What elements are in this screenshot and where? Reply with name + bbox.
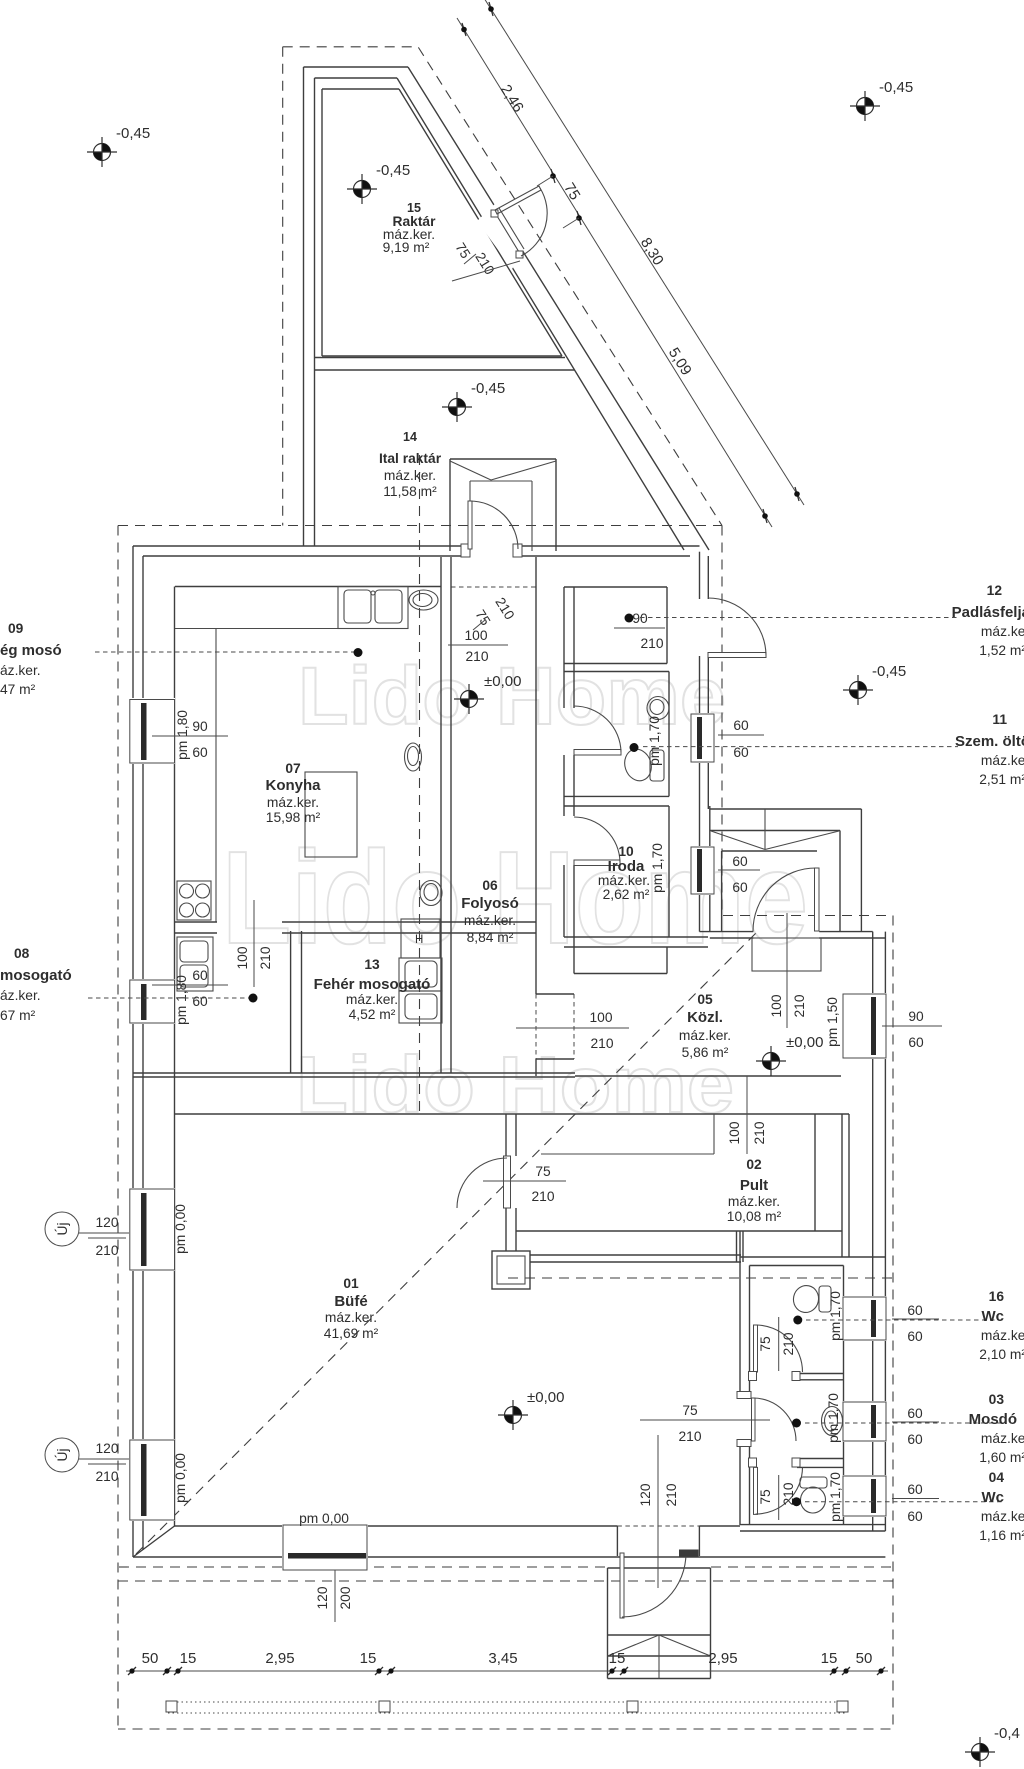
corridor opening jambs dashed bbox=[535, 994, 537, 1059]
outer wall left middle line bbox=[142, 556, 144, 1550]
svg-text:01: 01 bbox=[343, 1276, 359, 1291]
svg-text:2,95: 2,95 bbox=[708, 1650, 737, 1667]
dashed overhang line below bottom wall bbox=[118, 1580, 893, 1582]
svg-text:mosogató: mosogató bbox=[0, 967, 72, 984]
svg-text:100: 100 bbox=[769, 994, 784, 1017]
svg-text:Konyha: Konyha bbox=[265, 777, 321, 794]
wing diagonal wall outer bbox=[408, 67, 709, 550]
svg-text:pm 1,70: pm 1,70 bbox=[647, 716, 662, 766]
door wc16 jamb marks bbox=[749, 1372, 757, 1381]
svg-text:10: 10 bbox=[618, 844, 634, 859]
svg-text:pm 1,70: pm 1,70 bbox=[828, 1472, 843, 1522]
door wc04 arc bbox=[756, 1467, 803, 1514]
uj circle 2 bbox=[45, 1438, 79, 1472]
svg-text:pm 1,70: pm 1,70 bbox=[828, 1291, 843, 1341]
pult right wall bbox=[841, 1114, 843, 1257]
svg-text:±0,00: ±0,00 bbox=[527, 1389, 564, 1406]
svg-text:pm 1,50: pm 1,50 bbox=[825, 997, 840, 1047]
svg-text:60: 60 bbox=[192, 994, 208, 1009]
svg-text:75: 75 bbox=[472, 607, 493, 628]
svg-text:75: 75 bbox=[758, 1489, 773, 1505]
wc block top wall bbox=[740, 1256, 885, 1258]
rooms block top inner face bbox=[564, 586, 667, 588]
svg-text:máz.ker.: máz.ker. bbox=[267, 795, 319, 810]
svg-text:60: 60 bbox=[192, 745, 208, 760]
svg-text:máz.ker.: máz.ker. bbox=[384, 468, 436, 483]
dashed boundary right bbox=[118, 526, 893, 1730]
marker -0,45 wing bbox=[347, 174, 377, 204]
room 15 top face bbox=[322, 88, 399, 90]
window left 2 room08 bbox=[129, 979, 175, 1024]
kitchen block bottom wall bbox=[133, 1072, 575, 1074]
kozl entry step bbox=[752, 938, 821, 971]
room 15 bottom face bbox=[322, 355, 562, 357]
svg-text:15: 15 bbox=[407, 201, 421, 215]
svg-text:100: 100 bbox=[464, 628, 487, 643]
kitchen oval hand sink bbox=[409, 590, 438, 610]
svg-text:14: 14 bbox=[403, 430, 417, 444]
wc16 door dim bbox=[778, 1317, 780, 1371]
porch canopy triangle bbox=[711, 831, 765, 850]
svg-text:máz.ker: máz.ker bbox=[981, 1328, 1024, 1343]
kitchen left counter edge bbox=[215, 629, 217, 923]
kozl nook wall bbox=[574, 973, 667, 975]
wall kitchen to room 13 bbox=[282, 921, 536, 923]
svg-text:Fehér mosogató: Fehér mosogató bbox=[314, 976, 431, 993]
room 13 left wall bbox=[290, 931, 292, 1073]
svg-text:-0,45: -0,45 bbox=[471, 380, 505, 397]
window left 4 bufe bbox=[129, 1439, 175, 1521]
svg-text:16: 16 bbox=[989, 1289, 1005, 1304]
svg-text:2,62 m²: 2,62 m² bbox=[603, 887, 650, 902]
right wall upper outer face bbox=[699, 552, 701, 599]
svg-text:210: 210 bbox=[781, 1332, 796, 1355]
svg-text:60: 60 bbox=[733, 745, 749, 760]
marker pm0 kitchen bbox=[454, 684, 484, 714]
leader room 12 bbox=[640, 617, 958, 619]
door wc16 arc bbox=[756, 1325, 803, 1372]
door porch to kozl arc bbox=[753, 868, 817, 932]
kitchen sink tap bbox=[371, 591, 375, 595]
svg-text:Mosdó: Mosdó bbox=[969, 1411, 1017, 1428]
svg-text:210: 210 bbox=[640, 636, 663, 651]
room 05 label bbox=[679, 992, 731, 1060]
marker pm0 bufe bbox=[498, 1400, 528, 1430]
svg-text:pm 1,70: pm 1,70 bbox=[650, 843, 665, 893]
door room 11 arc bbox=[574, 706, 621, 752]
wc04 door dim bbox=[778, 1475, 780, 1520]
door room 15 arc bbox=[521, 188, 547, 256]
door room 15 opening bbox=[477, 200, 527, 269]
svg-text:210: 210 bbox=[95, 1243, 118, 1258]
door room 14 to corridor leaf bbox=[468, 501, 472, 549]
svg-text:08: 08 bbox=[14, 946, 30, 961]
wall between mosdo and wc04 bbox=[797, 1458, 844, 1460]
leader room 11 bbox=[643, 746, 958, 748]
wall between rooms 11 and 10 bbox=[564, 795, 669, 797]
svg-text:100: 100 bbox=[727, 1121, 742, 1144]
marker -0,45 ital raktar bbox=[442, 392, 472, 422]
wall between room 15 and 14 bbox=[315, 357, 566, 359]
kitchen island bbox=[305, 772, 357, 857]
svg-text:áz.ker.: áz.ker. bbox=[0, 988, 41, 1003]
room 15 label leader bbox=[452, 261, 520, 281]
corridor oval sink bbox=[405, 743, 422, 771]
room 10 label bbox=[598, 844, 650, 902]
door mosdo leaf bbox=[752, 1398, 756, 1441]
entry door dim 120 210 bbox=[657, 1435, 659, 1588]
svg-text:máz.ker: máz.ker bbox=[981, 1431, 1024, 1446]
margin label 03 bbox=[969, 1392, 1024, 1465]
wing left wall inner bbox=[314, 78, 316, 546]
room 06 label bbox=[461, 878, 519, 945]
svg-text:210: 210 bbox=[492, 595, 517, 623]
room 04 toilet bbox=[800, 1477, 827, 1488]
svg-text:50: 50 bbox=[142, 1650, 159, 1667]
svg-text:210: 210 bbox=[531, 1189, 554, 1204]
door wc04 jamb marks bbox=[749, 1458, 757, 1467]
svg-text:2,10 m²: 2,10 m² bbox=[979, 1347, 1024, 1362]
svg-text:Büfé: Büfé bbox=[334, 1293, 367, 1310]
corridor left wall bbox=[440, 557, 442, 1073]
svg-text:90: 90 bbox=[632, 611, 648, 626]
wall band kozl bottom bbox=[575, 1075, 841, 1077]
door bufe to pult arc bbox=[457, 1158, 507, 1208]
bufe pult partition wall upper bbox=[505, 1114, 507, 1156]
window bottom bufe bbox=[282, 1524, 368, 1571]
svg-text:120: 120 bbox=[95, 1441, 118, 1456]
porch interior top bbox=[722, 850, 817, 852]
svg-text:100: 100 bbox=[235, 946, 250, 969]
svg-text:Ital raktár: Ital raktár bbox=[379, 451, 442, 466]
dashed overhang line top of building bbox=[118, 525, 722, 527]
wing top wall inner bbox=[315, 77, 398, 79]
svg-text:Új: Új bbox=[54, 1448, 70, 1461]
kitchen top inner face bbox=[175, 586, 441, 588]
svg-text:60: 60 bbox=[192, 968, 208, 983]
svg-text:67 m²: 67 m² bbox=[0, 1008, 36, 1023]
pillar bbox=[492, 1251, 530, 1289]
svg-text:15,98 m²: 15,98 m² bbox=[266, 810, 321, 825]
svg-text:15: 15 bbox=[609, 1650, 626, 1667]
bottom dimension chain bbox=[126, 1670, 888, 1672]
leader room 09 bbox=[95, 651, 357, 653]
dashed section line vertical bbox=[419, 455, 421, 1114]
svg-text:75: 75 bbox=[560, 180, 583, 203]
uj circle 1 bbox=[45, 1212, 79, 1246]
svg-text:2,95: 2,95 bbox=[265, 1650, 294, 1667]
svg-text:60: 60 bbox=[907, 1406, 923, 1421]
svg-text:pm 0,00: pm 0,00 bbox=[173, 1204, 188, 1254]
svg-text:2,51 m²: 2,51 m² bbox=[979, 772, 1024, 787]
svg-text:Lido Home: Lido Home bbox=[296, 1040, 734, 1129]
svg-text:3,45: 3,45 bbox=[488, 1650, 517, 1667]
svg-text:pm 0,00: pm 0,00 bbox=[299, 1511, 349, 1526]
door mosdo arc bbox=[753, 1398, 796, 1441]
bottom wall outer face bbox=[133, 1556, 885, 1558]
svg-text:12: 12 bbox=[987, 583, 1003, 598]
entry door leaf bbox=[620, 1553, 624, 1618]
marker -0,45 top left bbox=[87, 137, 117, 167]
room 11 corner sink bbox=[647, 697, 669, 720]
dashed line across corridor kitchen face bbox=[451, 586, 536, 588]
svg-text:-0,45: -0,45 bbox=[116, 125, 150, 142]
svg-text:210: 210 bbox=[752, 1121, 767, 1144]
svg-text:±0,00: ±0,00 bbox=[484, 673, 521, 690]
door room 12 leaf bbox=[708, 653, 766, 658]
room 02 label bbox=[727, 1157, 782, 1224]
svg-text:Folyosó: Folyosó bbox=[461, 895, 519, 912]
marker -0,45 right middle bbox=[843, 675, 873, 705]
margin label 11 bbox=[955, 712, 1024, 787]
room 13 sink 2 bbox=[399, 991, 442, 1023]
svg-text:Wc: Wc bbox=[982, 1308, 1005, 1325]
room 15 left face bbox=[321, 89, 323, 356]
margin label 12 bbox=[952, 583, 1024, 658]
wall pult to wc block bbox=[736, 1231, 738, 1262]
outer wall top inner line bbox=[143, 555, 466, 557]
dashed boundary top and diagonal bbox=[283, 47, 722, 526]
svg-text:60: 60 bbox=[732, 880, 748, 895]
svg-text:210: 210 bbox=[95, 1469, 118, 1484]
room 13 label bbox=[314, 957, 431, 1022]
door wc04 leaf bbox=[754, 1467, 758, 1514]
corridor top door threshold marks bbox=[461, 544, 470, 557]
svg-text:11,58 m²: 11,58 m² bbox=[383, 484, 437, 499]
leader room 08 bbox=[88, 997, 252, 999]
svg-text:07: 07 bbox=[285, 761, 301, 776]
svg-text:pm 0,00: pm 0,00 bbox=[173, 1453, 188, 1503]
svg-text:1,52 m²: 1,52 m² bbox=[979, 643, 1024, 658]
svg-text:60: 60 bbox=[733, 718, 749, 733]
svg-text:06: 06 bbox=[482, 878, 498, 893]
svg-text:máz.ker: máz.ker bbox=[981, 753, 1024, 768]
svg-text:02: 02 bbox=[746, 1157, 762, 1172]
svg-text:8,84 m²: 8,84 m² bbox=[467, 930, 514, 945]
bottom porch step diagonals bbox=[608, 1635, 660, 1656]
door bufe to pult leaf bbox=[504, 1156, 511, 1208]
svg-text:máz.ker.: máz.ker. bbox=[679, 1028, 731, 1043]
svg-text:75: 75 bbox=[758, 1336, 773, 1352]
kitchen nook dim 100 210 bbox=[253, 900, 255, 987]
svg-text:-0,4: -0,4 bbox=[994, 1725, 1020, 1742]
leader room 16 bbox=[806, 1319, 1005, 1321]
entry door jambs bbox=[616, 1526, 618, 1556]
kitchen sink counter unit bbox=[338, 587, 408, 629]
svg-text:15: 15 bbox=[180, 1650, 197, 1667]
svg-text:máz.ker.: máz.ker. bbox=[464, 913, 516, 928]
svg-text:60: 60 bbox=[907, 1303, 923, 1318]
pult top dim 100 210 bbox=[746, 1076, 748, 1154]
svg-text:05: 05 bbox=[697, 992, 713, 1007]
room 13 sink 1 bbox=[399, 958, 442, 991]
mosdo basin bbox=[822, 1407, 843, 1436]
wc block left wall outer bbox=[739, 1231, 741, 1397]
svg-text:15: 15 bbox=[821, 1650, 838, 1667]
lift shaft room 14 bbox=[450, 458, 556, 460]
svg-text:120: 120 bbox=[95, 1215, 118, 1230]
door room 10 arc bbox=[574, 817, 620, 862]
svg-text:60: 60 bbox=[907, 1482, 923, 1497]
wing diagonal wall inner bbox=[397, 78, 684, 550]
svg-text:4,52 m²: 4,52 m² bbox=[349, 1007, 396, 1022]
right wall lower outer faces bbox=[872, 932, 874, 1531]
kozl vertical dim 100 210 bbox=[786, 913, 788, 1028]
svg-text:8,30: 8,30 bbox=[637, 235, 667, 269]
wall between wc16 and mosdo bbox=[797, 1373, 844, 1375]
kitchen sink bowl right bbox=[375, 590, 402, 623]
svg-text:áz.ker.: áz.ker. bbox=[0, 663, 41, 678]
room 12 right edge bbox=[666, 587, 668, 664]
door wc16 leaf bbox=[754, 1325, 758, 1372]
room 11 toilet bbox=[621, 746, 656, 784]
svg-text:15: 15 bbox=[360, 1650, 377, 1667]
svg-text:-0,45: -0,45 bbox=[376, 162, 410, 179]
kitchen top counter edge bbox=[175, 628, 338, 630]
svg-text:210: 210 bbox=[678, 1429, 701, 1444]
porch interior left wall bbox=[709, 806, 711, 932]
svg-text:9,19 m²: 9,19 m² bbox=[383, 240, 430, 255]
bottom window dim 120 200 bbox=[334, 1570, 336, 1622]
svg-text:Új: Új bbox=[54, 1222, 70, 1235]
porch second top bbox=[710, 830, 840, 832]
dashed inner wall line across entry door bbox=[617, 1525, 699, 1527]
kitchen sink bowl left bbox=[344, 590, 371, 623]
dashed diagonal across Bufe bbox=[136, 932, 757, 1554]
svg-text:210: 210 bbox=[664, 1483, 679, 1506]
room 11 right edge bbox=[668, 672, 670, 797]
window right 2 porch bbox=[690, 846, 715, 895]
room 01 label bbox=[324, 1276, 379, 1341]
door room 12 arc bbox=[708, 598, 766, 655]
wall kitchen to room 08 stub bbox=[175, 921, 217, 923]
svg-text:-0,45: -0,45 bbox=[879, 79, 913, 96]
window right 3 kozl 90x60 bbox=[842, 993, 887, 1059]
fence dotted lines bottom bbox=[168, 1701, 846, 1703]
window right 6 wc04 bbox=[842, 1475, 887, 1517]
window left 3 bufe bbox=[129, 1188, 175, 1271]
room 15 label bbox=[383, 201, 436, 255]
porch second right bbox=[839, 831, 841, 932]
svg-text:03: 03 bbox=[989, 1392, 1005, 1407]
lift direction triangle bbox=[450, 461, 491, 480]
svg-text:210: 210 bbox=[590, 1036, 613, 1051]
room 08 sink unit bbox=[177, 937, 213, 991]
wc block bottom wall bbox=[740, 1524, 885, 1526]
bottom porch bbox=[607, 1568, 609, 1679]
outer wall top outer face bbox=[133, 545, 466, 547]
svg-text:09: 09 bbox=[8, 621, 24, 636]
svg-text:Pult: Pult bbox=[740, 1177, 768, 1194]
right wall upper inner face bbox=[707, 556, 709, 599]
wall below room 10 bbox=[564, 936, 708, 938]
porch outer right bbox=[860, 809, 862, 932]
svg-text:Padlásfeljá: Padlásfeljá bbox=[952, 604, 1024, 621]
room 07 label bbox=[265, 761, 321, 825]
wc block inner right face bbox=[843, 1266, 845, 1526]
svg-text:1,16 m²: 1,16 m² bbox=[979, 1528, 1024, 1543]
leader room 04 bbox=[805, 1501, 1005, 1503]
svg-text:pm 1,70: pm 1,70 bbox=[826, 1393, 841, 1443]
room 14 label bbox=[379, 430, 442, 499]
pult counter right edge bbox=[814, 1114, 816, 1231]
wing left wall outer bbox=[303, 67, 305, 546]
bufe and pult top face bbox=[175, 1113, 850, 1115]
wall between rooms 12 and 11 bbox=[564, 663, 667, 665]
door mosdo jamb marks bbox=[737, 1392, 751, 1399]
dashed line right lower block bbox=[508, 1277, 893, 1279]
door room 15 frame lines bbox=[494, 211, 519, 252]
svg-text:60: 60 bbox=[907, 1329, 923, 1344]
svg-text:máz.ker.: máz.ker. bbox=[325, 1310, 377, 1325]
svg-text:máz.ker.: máz.ker. bbox=[728, 1194, 780, 1209]
svg-text:60: 60 bbox=[907, 1432, 923, 1447]
marker -0,45 top right bbox=[850, 91, 880, 121]
door room 11 leaf bbox=[574, 750, 621, 756]
marker pm0 kozl bbox=[756, 1046, 786, 1076]
bottom wall corner chamfer bbox=[133, 1526, 175, 1557]
svg-text:47 m²: 47 m² bbox=[0, 682, 36, 697]
svg-text:10,08 m²: 10,08 m² bbox=[727, 1209, 782, 1224]
door room 10 leaf bbox=[574, 860, 620, 866]
outer wall left outer face bbox=[132, 546, 134, 1557]
svg-text:50: 50 bbox=[856, 1650, 873, 1667]
fence post squares bbox=[166, 1701, 177, 1712]
svg-text:±0,00: ±0,00 bbox=[786, 1034, 823, 1051]
wing top wall outer bbox=[304, 66, 409, 68]
room 15 slanted face bbox=[399, 89, 562, 356]
svg-text:100: 100 bbox=[589, 1010, 612, 1025]
corridor right wall bbox=[535, 557, 537, 994]
margin label 16 bbox=[979, 1289, 1024, 1362]
door room 15 leaf bbox=[495, 186, 541, 214]
svg-text:máz.ker: máz.ker bbox=[981, 1509, 1024, 1524]
bufe pult partition wall lower bbox=[505, 1208, 507, 1251]
room 10 right edge bbox=[668, 806, 670, 937]
rooms block left wall inner bbox=[573, 587, 575, 708]
porch outer top bbox=[710, 808, 862, 810]
svg-text:13: 13 bbox=[364, 957, 380, 972]
window left 1 kitchen bbox=[129, 698, 175, 764]
svg-text:04: 04 bbox=[989, 1470, 1005, 1485]
svg-text:máz.ker.: máz.ker. bbox=[598, 873, 650, 888]
svg-text:-0,45: -0,45 bbox=[872, 663, 906, 680]
entry door sill bbox=[679, 1550, 699, 1557]
room 13 appliance H box bbox=[401, 919, 440, 958]
svg-text:210: 210 bbox=[258, 946, 273, 969]
svg-text:pm 1,80: pm 1,80 bbox=[175, 710, 190, 760]
room 16 toilet bbox=[819, 1286, 831, 1312]
outer wall left inner face bbox=[174, 587, 176, 1527]
svg-text:75: 75 bbox=[682, 1403, 698, 1418]
room 13 oval sink bbox=[420, 881, 442, 906]
window right 4 wc16 bbox=[842, 1296, 887, 1341]
bottom wall inner face bbox=[175, 1525, 284, 1527]
svg-text:ég mosó: ég mosó bbox=[0, 642, 62, 659]
svg-text:60: 60 bbox=[908, 1035, 924, 1050]
svg-text:Szem. öltö: Szem. öltö bbox=[955, 733, 1024, 750]
marker -0,45 bottom right bbox=[965, 1737, 995, 1767]
leader room 03 bbox=[805, 1422, 1005, 1424]
svg-text:75: 75 bbox=[535, 1164, 551, 1179]
stove bbox=[177, 881, 211, 920]
svg-text:210: 210 bbox=[465, 649, 488, 664]
entry door arc bbox=[622, 1553, 686, 1617]
svg-text:Közl.: Közl. bbox=[687, 1009, 723, 1026]
door room 15 hinge blocks bbox=[491, 210, 498, 217]
porch bottom wall kozl top bbox=[700, 931, 754, 933]
svg-text:Wc: Wc bbox=[982, 1489, 1005, 1506]
